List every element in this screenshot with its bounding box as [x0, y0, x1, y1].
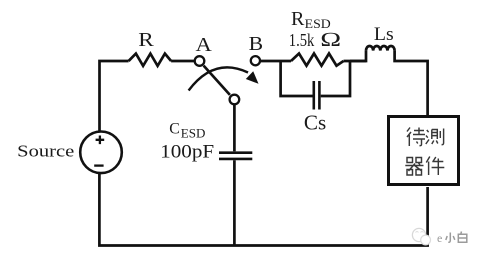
svg-text:Source: Source	[17, 141, 74, 160]
svg-text:R: R	[291, 8, 305, 30]
svg-text:C: C	[169, 120, 180, 137]
svg-text:e: e	[437, 231, 442, 245]
svg-text:100pF: 100pF	[160, 141, 214, 162]
svg-text:Ls: Ls	[374, 25, 394, 45]
svg-text:A: A	[196, 34, 213, 56]
svg-text:1.5k: 1.5k	[289, 30, 315, 50]
svg-text:Cs: Cs	[304, 111, 326, 135]
svg-text:Ω: Ω	[320, 29, 342, 51]
svg-text:B: B	[249, 33, 264, 55]
svg-text:ESD: ESD	[181, 126, 206, 141]
svg-text:R: R	[138, 29, 154, 51]
